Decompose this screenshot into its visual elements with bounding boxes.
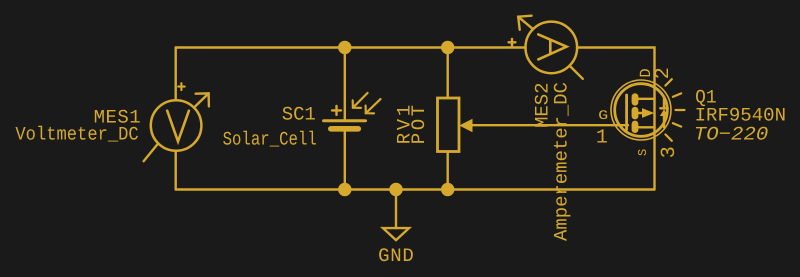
wire left rail vertical bottom <box>174 151 176 190</box>
svg-text:G: G <box>598 108 608 123</box>
junction dot bottom solar <box>338 183 351 196</box>
svg-text:SC1: SC1 <box>282 103 316 125</box>
wire left rail vertical top <box>174 48 176 101</box>
svg-text:2: 2 <box>652 67 675 79</box>
svg-text:GND: GND <box>378 245 414 267</box>
wire wiper to gate <box>471 124 629 126</box>
svg-text:POT: POT <box>408 105 430 144</box>
tick -45 <box>665 134 671 140</box>
svg-text:Solar_Cell: Solar_Cell <box>223 128 317 150</box>
tick 0 <box>676 109 685 111</box>
wire top rail <box>176 46 526 48</box>
svg-text:S: S <box>636 149 650 156</box>
svg-text:Amperemeter_DC: Amperemeter_DC <box>551 82 573 241</box>
ground <box>383 228 409 240</box>
junction dot bottom gnd <box>389 183 402 196</box>
voltmeter MES1 <box>144 83 209 161</box>
wire ammeter to drain corner <box>577 48 655 99</box>
wire GND stem <box>395 190 397 229</box>
wire solar cell bottom <box>344 132 346 190</box>
wire pot top <box>447 48 449 99</box>
potentiometer RV1 <box>438 98 473 152</box>
junction dot bottom pot <box>441 183 454 196</box>
svg-text:Voltmeter_DC: Voltmeter_DC <box>15 123 138 145</box>
ammeter MES2 <box>509 16 583 79</box>
svg-text:1: 1 <box>596 127 608 150</box>
wire source to bottom rail <box>653 127 655 189</box>
transistor Q1 <box>611 79 685 141</box>
junction dot top solar <box>338 41 351 54</box>
tick 22 <box>673 93 681 96</box>
solar cell SC1 <box>324 93 381 129</box>
tick -22 <box>673 123 681 126</box>
wire bottom rail <box>176 188 655 190</box>
junction dot top pot <box>441 41 454 54</box>
svg-text:TO−220: TO−220 <box>694 123 769 145</box>
tick 45 <box>665 79 671 85</box>
wire pot bottom <box>447 152 449 190</box>
wire solar cell top <box>344 48 346 120</box>
svg-text:3: 3 <box>658 146 681 158</box>
